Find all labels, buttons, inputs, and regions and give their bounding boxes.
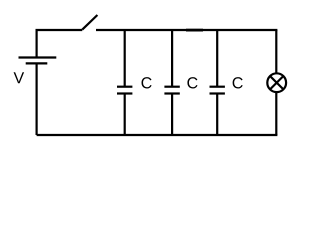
wire: overlap thick segment on top bus [186,29,203,32]
capacitor C3: bottom lead [216,94,218,136]
capacitor C1: top lead [124,30,126,87]
label C (C1) [142,77,152,88]
lamp L1: circle [267,73,286,92]
lamp L1: X stroke 2 [270,76,283,89]
wire: bottom bus [37,134,278,136]
capacitor C1: bottom plate [117,92,132,94]
capacitor C3: top plate [210,86,225,88]
wire: top bus right segment (switch to lamp corner) [96,29,277,31]
capacitor C1: top plate [117,86,132,88]
capacitor C2: bottom lead [171,94,173,136]
label V [14,72,25,83]
capacitor C2: top plate [164,86,179,88]
label C (C2) [187,77,197,88]
capacitor C2: bottom plate [164,92,179,94]
switch S1 (open blade) [82,15,97,30]
wire: top bus left segment (battery top corner to switch) [37,30,83,58]
wire: lamp bottom lead [275,93,277,135]
capacitor C1: bottom lead [124,94,126,136]
battery V: bottom plate (short, negative) [26,62,48,64]
label C (C3) [233,77,243,88]
wire: battery bottom lead down to bottom bus [35,63,37,135]
capacitor C2: top lead [171,30,173,87]
battery V: top plate (long, positive) [19,56,57,58]
capacitor C3: bottom plate [210,92,225,94]
capacitor C3: top lead [216,30,218,87]
wire: lamp top lead [275,30,277,73]
lamp L1: X stroke 1 [270,76,283,89]
